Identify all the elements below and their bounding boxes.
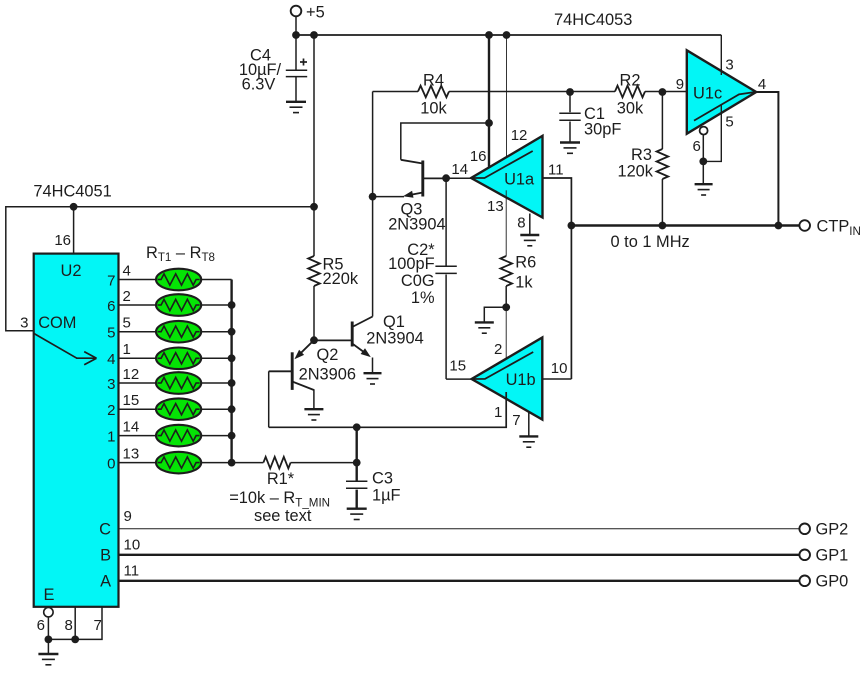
svg-text:7: 7 <box>94 617 102 634</box>
wire U1a pin 14 node <box>446 177 471 179</box>
wire Q3 emitter to R4 leg <box>373 196 404 198</box>
svg-text:E: E <box>44 586 55 604</box>
ground U1a pin 8 <box>520 234 539 236</box>
svg-text:16: 16 <box>54 232 71 249</box>
svg-text:12: 12 <box>123 366 140 383</box>
inhibit bubble pin 6 of U1c <box>700 127 708 135</box>
wire U1a pin 8 to ground <box>529 214 531 235</box>
svg-text:10: 10 <box>551 360 568 377</box>
svg-text:220k: 220k <box>323 270 359 288</box>
svg-text:5: 5 <box>123 315 131 332</box>
node C1 junction <box>566 88 574 96</box>
node Q3-collector/pin16 junction <box>485 119 493 127</box>
svg-text:1%: 1% <box>411 289 435 307</box>
svg-text:4: 4 <box>123 262 131 279</box>
wire output bus 0-1MHz <box>571 224 799 226</box>
svg-text:11: 11 <box>548 162 564 179</box>
node feedback/C3 junction <box>353 423 361 431</box>
svg-text:15: 15 <box>449 358 466 375</box>
ground U1b pin 7 <box>519 435 538 437</box>
svg-text:30pF: 30pF <box>584 121 621 139</box>
svg-text:U1a: U1a <box>504 171 535 189</box>
wire U2 channel 0 (pin 13) <box>119 462 232 464</box>
node rail/R5 junction <box>310 203 318 211</box>
wire +5 to rail <box>295 16 297 35</box>
ground U2 <box>38 653 58 655</box>
wire +5 branch down to R5 <box>313 35 315 256</box>
node pin11/output-bus junction <box>568 222 576 230</box>
svg-text:6: 6 <box>37 617 45 634</box>
wire U1c output pin 4 <box>756 92 778 226</box>
thermistor RT4 <box>156 348 201 370</box>
svg-text:11: 11 <box>124 563 140 580</box>
ground stub wire <box>484 307 506 322</box>
svg-text:7: 7 <box>512 412 520 429</box>
svg-text:9: 9 <box>124 508 132 525</box>
node R2/R3 junction <box>659 88 667 96</box>
svg-text:74HC4053: 74HC4053 <box>554 11 632 29</box>
svg-text:2: 2 <box>107 402 115 419</box>
wire U2 pin 8 <box>74 607 76 640</box>
wire U1b pin 10 <box>542 378 571 380</box>
wire thermistor common bus <box>230 280 232 463</box>
wire U2 channel 1 (pin 14) <box>119 435 232 437</box>
transistor Q3 2N3904 <box>388 160 446 234</box>
wire U1b pin 2 <box>505 307 507 367</box>
svg-text:1: 1 <box>494 404 502 421</box>
wire U1b pin 1 to feedback <box>269 392 507 427</box>
svg-text:74HC4051: 74HC4051 <box>33 183 111 201</box>
svg-text:5: 5 <box>725 114 733 131</box>
ground C4 <box>286 101 306 103</box>
svg-text:C: C <box>99 521 111 539</box>
wire U1c pin 6 to ground <box>702 135 704 184</box>
svg-text:U2: U2 <box>61 262 82 280</box>
wire R4 to R2 <box>449 91 615 93</box>
svg-text:GP2: GP2 <box>816 521 849 539</box>
wire 74HC4051 VCC rail and COM feed <box>6 207 314 331</box>
thermistor RT5 <box>156 372 201 394</box>
svg-text:R3: R3 <box>631 146 652 164</box>
mux switch U1b <box>472 338 543 420</box>
thermistor RT7 <box>156 425 201 447</box>
wire R5 to Q1/Q2 node <box>313 286 315 340</box>
wire Q3 collector <box>401 123 489 160</box>
terminal CTP_IN <box>799 218 860 239</box>
svg-text:7: 7 <box>107 272 115 289</box>
terminal GP2 <box>799 521 848 539</box>
transistor Q2 2N3906 <box>269 340 356 390</box>
svg-text:16: 16 <box>470 148 487 165</box>
ground Q2 <box>304 408 323 410</box>
svg-text:13: 13 <box>123 445 140 462</box>
svg-text:4: 4 <box>758 76 766 93</box>
capacitor C2 <box>388 178 457 379</box>
wire U2 channel 7 (pin 4) <box>119 279 232 281</box>
resistor R4 <box>418 72 449 118</box>
node rail/U1a-pin12 junction <box>503 31 511 39</box>
wire Q1 emitter to ground <box>372 358 374 373</box>
wire U1b pin 7 to ground <box>528 412 530 436</box>
wire U1a pin 16 from rail <box>488 35 490 167</box>
wire U1a pin 12 from rail <box>506 35 508 166</box>
terminal GP1 <box>799 547 848 565</box>
svg-text:A: A <box>100 573 111 591</box>
svg-text:13: 13 <box>487 198 504 215</box>
svg-text:R4: R4 <box>423 72 444 90</box>
mux switch U1a <box>471 136 542 218</box>
resistor R1 <box>229 457 330 525</box>
svg-text:U1c: U1c <box>693 85 722 103</box>
IC U2 74HC4051 body <box>34 254 119 607</box>
resistor R2 <box>615 72 645 118</box>
svg-text:14: 14 <box>451 161 468 178</box>
terminal GP0 <box>799 573 848 591</box>
node +5/C4 junction <box>292 31 300 39</box>
wire Q2 base to feedback <box>268 371 270 427</box>
wire U2 channel 3 (pin 12) <box>119 382 232 384</box>
ground C3 <box>347 508 367 510</box>
wire U2 pin 16 <box>73 207 75 254</box>
svg-text:see text: see text <box>254 507 312 525</box>
wire address line A <box>119 580 800 582</box>
svg-text:0: 0 <box>107 455 115 472</box>
wire address line B <box>119 554 800 556</box>
svg-text:1k: 1k <box>515 274 533 292</box>
node R1/C3 junction <box>353 459 361 467</box>
svg-text:6.3V: 6.3V <box>242 76 276 94</box>
svg-text:1: 1 <box>107 428 115 445</box>
ground Q1 <box>364 372 382 374</box>
capacitor C1 <box>559 92 621 142</box>
node R3/output junction <box>659 222 667 230</box>
wire +5 rail <box>296 34 721 36</box>
svg-text:6: 6 <box>692 138 700 155</box>
thermistor RT1 <box>156 269 201 291</box>
svg-text:C0G: C0G <box>401 272 435 290</box>
svg-text:GP1: GP1 <box>816 547 849 565</box>
capacitor C4 <box>239 35 307 102</box>
svg-text:R1*: R1* <box>267 470 295 488</box>
wire U1c pin 5 to ground node <box>703 104 721 161</box>
ground R6 <box>475 321 494 323</box>
svg-text:1: 1 <box>123 341 131 358</box>
node bus junction <box>228 459 236 467</box>
wire address line C <box>119 528 800 530</box>
wire U1a pin 11 to U1b pin 10 <box>543 178 572 379</box>
node output/CTP junction <box>775 222 783 230</box>
node rail/R5-branch junction <box>310 31 318 39</box>
svg-text:3: 3 <box>20 315 28 332</box>
wire C2 to U1b pin 15 <box>446 378 472 380</box>
wire Q2 collector to ground <box>313 389 315 409</box>
svg-text:R6: R6 <box>515 254 536 272</box>
svg-text:3: 3 <box>107 376 115 393</box>
node bus junction <box>228 432 236 440</box>
wire bus to R1 <box>232 462 264 464</box>
svg-text:3: 3 <box>725 57 733 74</box>
wire R4 left leg down to Q1 collector <box>372 92 374 317</box>
wire U2 channel 4 (pin 1) <box>119 357 232 359</box>
node bus junction <box>228 405 236 413</box>
svg-text:12: 12 <box>511 127 528 144</box>
resistor R6 <box>500 254 536 292</box>
transistor Q1 2N3904 <box>314 313 424 357</box>
node rail/U2-pin16 junction <box>70 203 78 211</box>
thermistor RT6 <box>156 398 201 420</box>
node R4-leg/Q3-emitter junction <box>369 193 377 201</box>
svg-text:Q2: Q2 <box>317 346 339 364</box>
node Q1-base/Q2-emitter junction <box>310 336 318 344</box>
svg-text:COM: COM <box>38 314 76 332</box>
svg-text:2N3904: 2N3904 <box>388 216 445 234</box>
mux switch U1c <box>687 50 756 133</box>
wire U2 pin 7 <box>48 607 102 640</box>
wire U1c pin 3 from rail <box>720 35 722 75</box>
svg-text:15: 15 <box>123 392 140 409</box>
wire R4 row <box>373 91 418 93</box>
power terminal +5 <box>291 4 325 22</box>
svg-text:2: 2 <box>494 341 502 358</box>
svg-text:100pF: 100pF <box>388 255 434 273</box>
ground C1 <box>560 141 580 143</box>
resistor R5 <box>308 256 359 289</box>
wire R3 to output bus <box>661 179 663 226</box>
wire R1 to C3 node <box>291 462 357 464</box>
svg-text:5: 5 <box>107 325 115 342</box>
wire U1a pin 13 to R6 <box>505 190 507 256</box>
svg-text:B: B <box>100 547 111 565</box>
svg-text:30k: 30k <box>617 100 644 118</box>
ground U1c <box>695 183 713 185</box>
thermistor RT2 <box>156 294 201 316</box>
wire U2 channel 2 (pin 15) <box>119 408 232 410</box>
wire U2 channel 5 (pin 5) <box>119 331 232 333</box>
wire to ground U2 <box>47 639 49 653</box>
node pin14/C2/Q3-base junction <box>442 174 450 182</box>
svg-text:6: 6 <box>107 298 115 315</box>
node bus junction <box>228 328 236 336</box>
svg-text:10k: 10k <box>420 100 447 118</box>
wire C3 drop <box>356 427 358 480</box>
svg-text:0 to 1 MHz: 0 to 1 MHz <box>611 233 690 251</box>
svg-text:4: 4 <box>107 351 115 368</box>
node bus junction <box>228 379 236 387</box>
thermistor RT3 <box>156 321 201 343</box>
node bus junction <box>228 354 236 362</box>
svg-text:+5: +5 <box>306 4 325 22</box>
svg-text:1µF: 1µF <box>372 487 401 505</box>
wire R6 to ground stub and U1b pin 2 <box>505 286 507 307</box>
node pin6/ground junction <box>45 636 53 644</box>
svg-text:Q1: Q1 <box>383 313 405 331</box>
svg-text:8: 8 <box>517 215 525 232</box>
resistor R3 <box>617 92 668 181</box>
node bus junction <box>228 301 236 309</box>
svg-text:GP0: GP0 <box>816 573 849 591</box>
svg-text:14: 14 <box>123 418 140 435</box>
COM selector arrow <box>34 334 96 365</box>
wire U2 pin 6 <box>47 617 49 640</box>
node pin5/pin6 junction <box>699 158 707 166</box>
wire R2 to U1c pin 9 <box>645 91 687 93</box>
capacitor C3 <box>346 470 401 509</box>
thermistor RT8 <box>156 452 201 474</box>
svg-text:10: 10 <box>124 537 141 554</box>
svg-text:2N3904: 2N3904 <box>366 330 423 348</box>
svg-text:9: 9 <box>676 76 684 93</box>
svg-text:2N3906: 2N3906 <box>299 365 356 383</box>
node rail/U1a-pin16 junction <box>485 31 493 39</box>
pin label 3 COM <box>20 314 76 332</box>
svg-text:8: 8 <box>65 617 73 634</box>
svg-text:2: 2 <box>123 288 131 305</box>
svg-text:C3: C3 <box>372 470 393 488</box>
svg-text:U1b: U1b <box>506 371 536 389</box>
node R6/pin2/ground junction <box>502 303 510 311</box>
svg-text:120k: 120k <box>617 163 653 181</box>
wire U2 channel 6 (pin 2) <box>119 304 232 306</box>
node pin8 junction <box>71 636 79 644</box>
svg-text:R2: R2 <box>620 72 641 90</box>
enable bubble pin 6 of U2 <box>44 608 53 617</box>
